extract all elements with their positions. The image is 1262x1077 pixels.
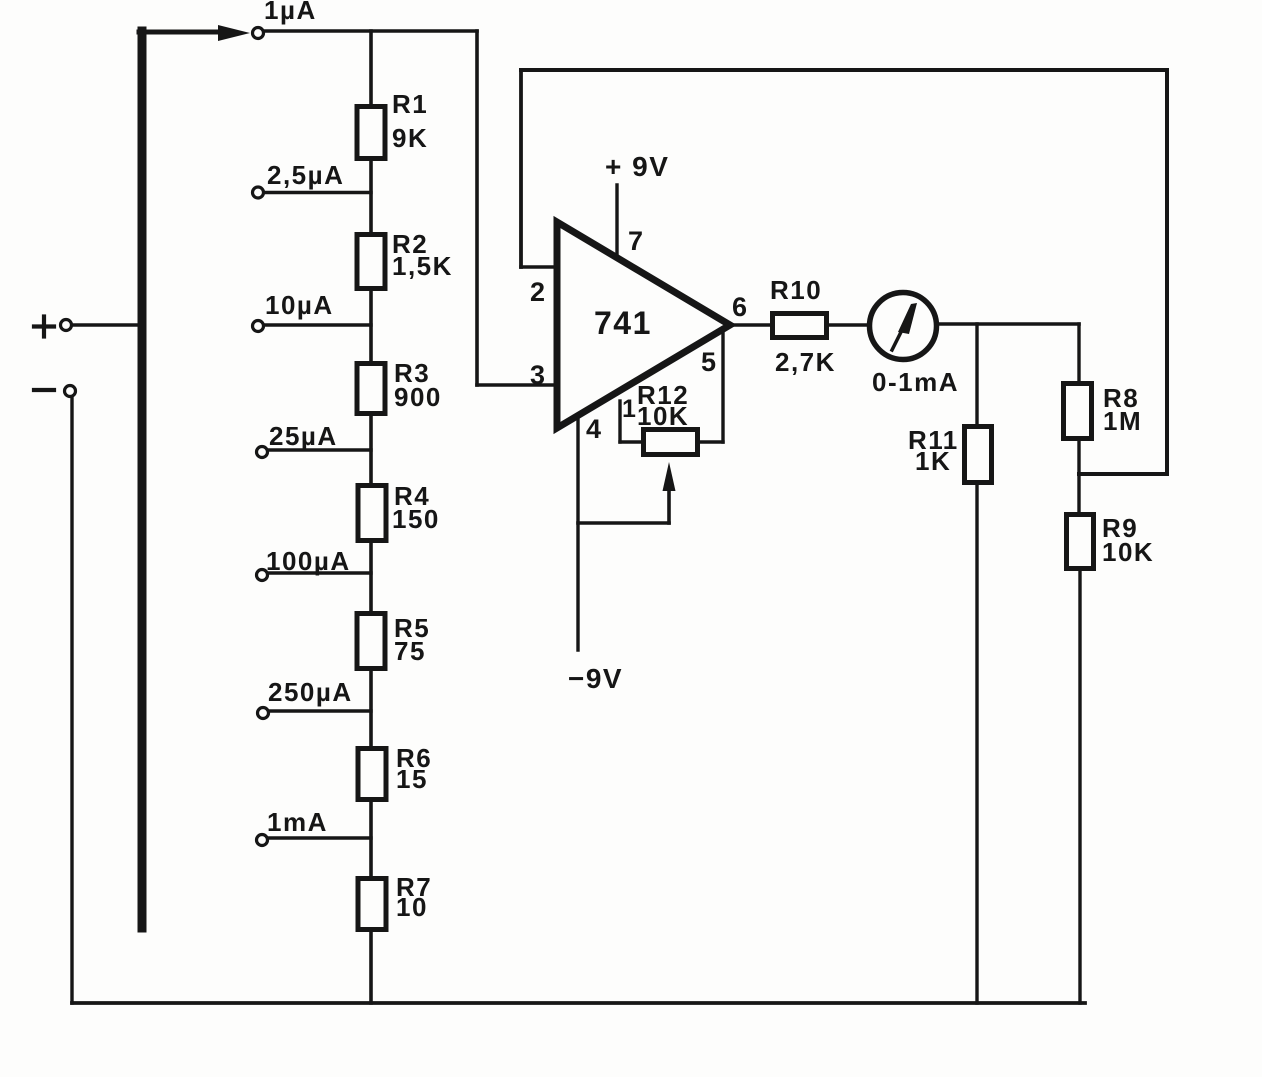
wire: 250uA tap <box>270 709 371 712</box>
svg-text:75: 75 <box>394 636 426 666</box>
svg-text:4: 4 <box>586 414 603 444</box>
svg-text:1mA: 1mA <box>267 807 328 837</box>
node: 1mA tap terminal <box>257 835 268 846</box>
svg-text:9K: 9K <box>392 123 428 153</box>
svg-text:2,7K: 2,7K <box>775 347 836 377</box>
svg-text:741: 741 <box>594 305 652 341</box>
arrowhead into 1uA terminal <box>218 25 250 41</box>
pin 6 output wire <box>730 323 770 327</box>
wire: drop to R11 <box>975 324 978 425</box>
meter M1 0-1mA <box>870 293 937 360</box>
svg-text:1,5K: 1,5K <box>392 251 453 281</box>
wire: 1mA tap <box>269 836 371 839</box>
resistor R7 <box>358 879 386 930</box>
wire: 10uA tap <box>265 323 371 326</box>
wire: feedback right vertical <box>1165 70 1169 474</box>
node: 2.5uA tap terminal <box>253 187 264 198</box>
svg-text:3: 3 <box>530 360 547 390</box>
wire: 25uA tap <box>269 448 371 451</box>
wire: meter to right <box>937 322 1079 326</box>
wire: R8 to R9 through junction <box>1077 441 1080 513</box>
resistor R4 <box>358 486 386 541</box>
label minus sign <box>34 388 54 392</box>
svg-text:1µA: 1µA <box>264 0 317 25</box>
wire: top horizontal into arrow <box>139 30 222 35</box>
wire: drop to R8 <box>1077 324 1080 382</box>
pin 2 wire <box>521 265 554 269</box>
wire: bottom horizontal <box>72 1001 1085 1005</box>
wire: plus terminal to thick bus <box>72 323 139 326</box>
svg-text:2,5µA: 2,5µA <box>267 160 344 190</box>
svg-text:7: 7 <box>628 226 645 256</box>
svg-text:1M: 1M <box>1103 406 1142 436</box>
svg-text:R1: R1 <box>392 89 428 119</box>
resistor R10 <box>773 314 827 338</box>
pin 1 wire <box>618 401 621 442</box>
resistor R6 <box>358 749 386 800</box>
resistor R9 <box>1067 515 1094 569</box>
label plus sign <box>34 324 54 328</box>
wire: horizontal into op-amp pin 3 <box>477 383 557 387</box>
node: minus input terminal <box>65 386 76 397</box>
resistor R1 <box>357 107 385 159</box>
potentiometer R12 <box>644 430 698 455</box>
wire: 100uA tap <box>269 571 371 574</box>
svg-text:15: 15 <box>396 764 428 794</box>
svg-text:10: 10 <box>396 892 428 922</box>
svg-text:1K: 1K <box>915 446 951 476</box>
node: 250uA tap terminal <box>258 708 269 719</box>
svg-text:0-1mA: 0-1mA <box>872 367 959 397</box>
arrowhead of wiper <box>663 462 676 491</box>
node: 1uA terminal circle <box>253 28 264 39</box>
wire: 2.5uA tap <box>264 191 371 194</box>
pin 4 supply wire <box>576 417 579 650</box>
svg-text:5: 5 <box>701 347 718 377</box>
wire: feedback top horizontal <box>521 68 1167 72</box>
wire: feedback from pin2 up <box>519 70 523 267</box>
node: 100uA tap terminal <box>257 570 268 581</box>
svg-text:10K: 10K <box>637 401 689 431</box>
wire: 1uA terminal to right <box>265 29 477 33</box>
resistor R5 <box>357 614 385 669</box>
svg-text:25µA: 25µA <box>269 421 338 451</box>
wire: thick left vertical bus <box>138 31 147 928</box>
op-amp U1 741 triangle <box>557 222 730 428</box>
svg-text:150: 150 <box>392 504 440 534</box>
node: 25uA tap terminal <box>257 447 268 458</box>
wire: feedback into R8-R9 junction <box>1079 472 1167 476</box>
resistor R11 <box>965 427 992 483</box>
svg-text:+ 9V: + 9V <box>605 151 669 182</box>
node: 10uA tap terminal <box>253 321 264 332</box>
node: plus input terminal <box>61 320 72 331</box>
svg-text:900: 900 <box>394 382 442 412</box>
svg-text:−9V: −9V <box>568 663 623 694</box>
wire: R10 to meter <box>829 323 869 327</box>
wire: R9 to bottom <box>1078 571 1081 1003</box>
svg-text:1: 1 <box>622 395 637 423</box>
wire: minus terminal down left side <box>70 397 73 1003</box>
svg-text:R10: R10 <box>770 275 822 305</box>
svg-text:6: 6 <box>732 292 749 322</box>
svg-text:10K: 10K <box>1102 537 1154 567</box>
wire: R12 wiper arm <box>578 521 669 525</box>
pin 5 wire <box>721 330 724 442</box>
pin 7 supply wire <box>615 185 618 255</box>
svg-text:2: 2 <box>530 277 547 307</box>
svg-text:250µA: 250µA <box>268 677 353 707</box>
svg-text:10µA: 10µA <box>265 290 334 320</box>
wire: vertical down to pin3 level <box>475 31 479 385</box>
resistor R8 <box>1064 384 1092 439</box>
resistor R2 <box>357 235 385 289</box>
wire: R11 to bottom <box>975 485 978 1003</box>
resistor R3 <box>357 364 385 414</box>
wire: resistor chain rail segments <box>369 31 373 104</box>
